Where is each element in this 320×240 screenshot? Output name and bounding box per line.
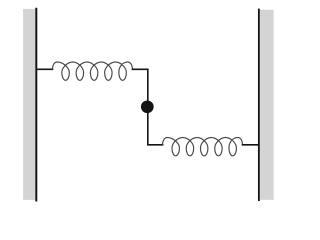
right plate conductor line xyxy=(258,9,260,201)
junction node A dot xyxy=(141,100,154,113)
left plate conductor line xyxy=(35,8,37,202)
L2 left terminal blob xyxy=(162,144,164,146)
L1 left terminal blob xyxy=(52,68,54,70)
right plate gray bar xyxy=(260,10,274,200)
wire: L2 to right plate xyxy=(242,144,259,146)
inductor L1 xyxy=(52,62,132,80)
wire: L1 to node A and down to L2 xyxy=(132,69,163,145)
left plate gray bar xyxy=(23,9,35,200)
L1 right terminal blob xyxy=(131,68,133,70)
wire: left plate to L1 xyxy=(37,68,53,70)
L2 right terminal blob xyxy=(242,144,244,146)
inductor L2 xyxy=(162,137,242,155)
